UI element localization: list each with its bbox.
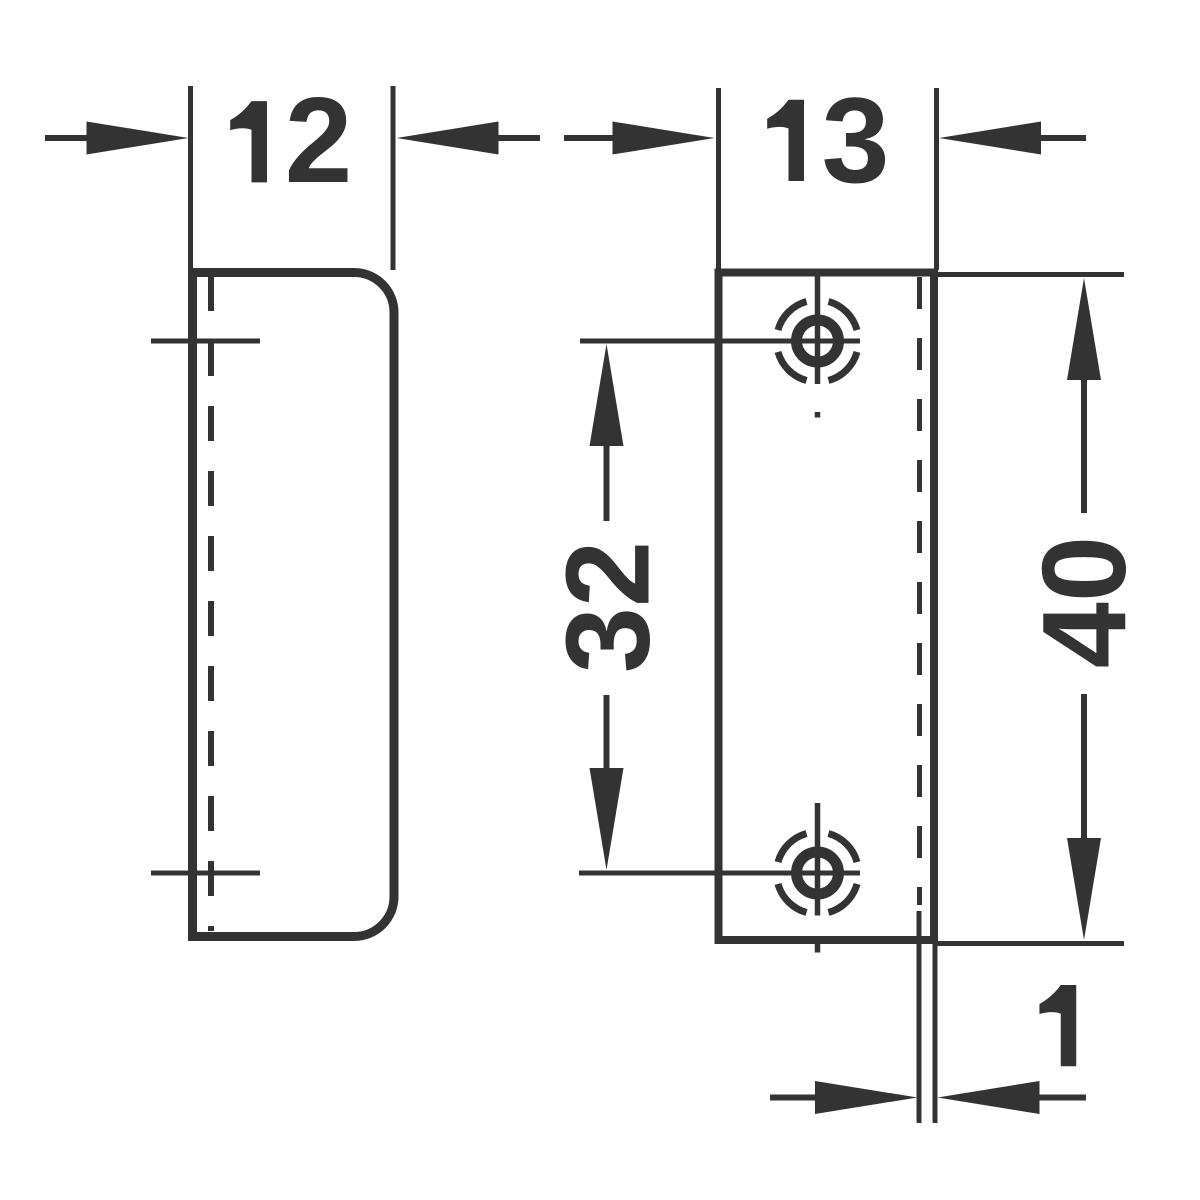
dim 12: right extension line [391, 86, 396, 270]
dim 13: left arrow [564, 135, 616, 141]
dim 13: right extension line [934, 88, 939, 270]
left view: plate outline (side profile) [193, 273, 395, 937]
left view: hidden edge dashed line [208, 276, 214, 931]
hole H2 (bottom): dashed pitch circle [778, 833, 857, 912]
hole H1 (top): centerline vertical [815, 273, 821, 385]
dim 40: top extension line [937, 272, 1124, 277]
right view: plate rectangle outline [719, 273, 935, 941]
dim 40: bottom extension line [937, 941, 1124, 946]
dim 13: left extension line [716, 88, 721, 272]
dim 40: top arrow [1081, 374, 1087, 513]
hole H2 (bottom): centerline stub below edge [815, 941, 821, 953]
dim 12: right arrow [497, 135, 541, 141]
left view: hole tick mark bottom [151, 871, 260, 876]
label 1 [1039, 985, 1076, 1066]
label 13 [767, 100, 804, 181]
dim 1: left arrow [770, 1095, 820, 1101]
dim 1: right arrow [1035, 1095, 1086, 1101]
dim 12: left extension line [188, 86, 193, 270]
dim 32: top arrow [604, 440, 610, 521]
hole H1 (top): centerline dot [815, 412, 821, 418]
dim 13: right arrow [1039, 135, 1086, 141]
svg-text:40: 40 [1018, 536, 1151, 668]
dim 1: right extension line (below plate) [933, 940, 938, 1123]
dim 32: top extension line (through hole H1) [580, 339, 860, 344]
hole H2 (bottom): centerline vertical [815, 803, 821, 916]
left view: hole tick mark top [151, 339, 260, 344]
dim 40: bottom arrow [1081, 694, 1087, 840]
svg-text:32: 32 [542, 541, 675, 673]
hole H1 (top): ring [797, 320, 839, 362]
dim 1: left extension line (below plate) [917, 911, 922, 1123]
hole H1 (top): dashed pitch circle [778, 301, 857, 380]
dim 12: left arrow [45, 135, 95, 141]
svg-text:2: 2 [285, 72, 353, 208]
dim 32: bottom extension line (through hole H2) [579, 871, 860, 876]
svg-text:3: 3 [822, 72, 890, 208]
label 12 [230, 101, 267, 182]
hole H2 (bottom): ring [797, 852, 839, 894]
dim 32: bottom arrow [604, 695, 610, 774]
right view: bend dashed line [917, 277, 922, 905]
